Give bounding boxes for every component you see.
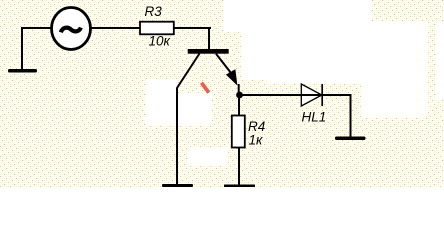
wire node to diode to corner <box>239 95 351 137</box>
ground G4 <box>224 185 255 188</box>
wire emitter to node <box>238 84 240 95</box>
wire R4 to ground <box>238 148 240 186</box>
wire R3 to transistor base <box>175 27 212 29</box>
svg-text:R3: R3 <box>145 4 163 19</box>
ground G3 <box>335 137 366 141</box>
node junction dot <box>236 92 243 99</box>
dotted grid background <box>0 0 444 187</box>
transistor emitter lead <box>216 54 231 73</box>
wire source left <box>22 27 51 29</box>
svg-text:1к: 1к <box>249 133 264 148</box>
erased white area mid <box>178 93 211 125</box>
erased white area right edge <box>436 22 444 100</box>
erased white area mid-left <box>146 80 177 125</box>
erased white area right mid <box>372 22 428 117</box>
ground G2 <box>162 184 193 187</box>
transistor emitter arrow <box>226 69 238 85</box>
wire node to R4 <box>238 95 240 116</box>
erased white area right sliver <box>362 84 372 117</box>
svg-text:HL1: HL1 <box>302 110 327 125</box>
wire source to R3 <box>90 27 140 29</box>
wire source to ground <box>21 27 23 69</box>
resistor R4 <box>232 116 245 148</box>
red probe mark <box>202 83 209 93</box>
transistor VT1 base bar <box>188 49 229 54</box>
diode HL1 triangle <box>301 84 322 106</box>
transistor collector lead <box>177 54 200 185</box>
erased white area top main <box>268 0 372 84</box>
erased white area top main left <box>242 0 270 80</box>
ground G1 <box>8 69 37 73</box>
ac source V1 <box>52 8 91 50</box>
svg-text:10к: 10к <box>149 34 171 49</box>
diode HL1 cathode bar <box>321 84 323 106</box>
resistor R3 <box>140 22 174 35</box>
erased white area top notch <box>224 0 242 32</box>
erased white area below R4 left <box>188 148 227 165</box>
ac source tilde <box>61 28 81 33</box>
